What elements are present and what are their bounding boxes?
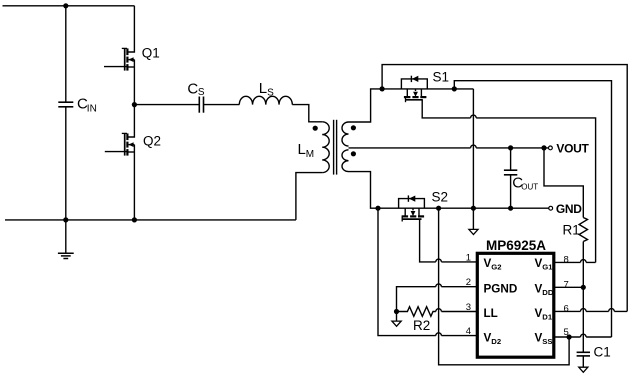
wire pin 2 PGND to ground [397, 284, 478, 312]
svg-text:VOUT: VOUT [556, 142, 589, 156]
wire VOUT to R1 VDD feed [544, 148, 583, 218]
node VOUT junction [541, 145, 546, 150]
svg-text:GND: GND [556, 202, 582, 216]
svg-text:Q2: Q2 [143, 133, 161, 148]
transformer core [334, 120, 337, 175]
node top rail / CIN junction [63, 3, 68, 8]
node S1 source junction [452, 86, 457, 91]
wire top input rail [3, 5, 135, 7]
svg-text:L: L [259, 80, 267, 97]
node primary dot [313, 126, 318, 131]
wire R1 to VDD and C1 [582, 242, 584, 353]
wire S1 drain to top rail to VD1 [382, 65, 627, 312]
node S2 drain junction [375, 206, 380, 211]
node PGND R2 junction [394, 309, 399, 314]
node switch node [132, 102, 137, 107]
svg-text:S1: S1 [433, 70, 450, 85]
node VOUT terminal [549, 146, 553, 150]
node GND terminal [549, 206, 553, 210]
inductor LS [239, 96, 292, 104]
wire S2 main GND rail [378, 207, 549, 209]
resistor R1 [579, 218, 587, 242]
svg-text:1: 1 [466, 252, 471, 263]
svg-text:IN: IN [87, 104, 97, 115]
wire pin 7 VDD [554, 286, 584, 288]
node S1 drain junction [380, 86, 385, 91]
capacitor CIN [58, 6, 73, 220]
node secondary bottom dot [351, 151, 356, 156]
transistor S1 [401, 76, 427, 103]
wire pin 8 VG1 [554, 260, 596, 263]
wire primary return [296, 173, 322, 220]
node pin5 VSS junction [567, 334, 572, 339]
svg-text:8: 8 [564, 254, 569, 265]
capacitor COUT [504, 148, 517, 208]
wire pin 6 VD1 [554, 309, 627, 312]
wire secondary top lead to S1 [349, 89, 383, 122]
ground symbol R2 [392, 312, 401, 327]
svg-text:7: 7 [564, 279, 569, 290]
svg-text:2: 2 [466, 277, 471, 288]
capacitor C1 [577, 352, 590, 367]
transistor S2 [399, 195, 425, 221]
transformer secondary top winding [342, 122, 349, 146]
node GND rail S1 junction [471, 206, 476, 211]
capacitor CS [199, 97, 239, 113]
svg-text:S2: S2 [432, 190, 449, 205]
svg-text:S: S [267, 88, 274, 99]
node S2 source junction [436, 206, 441, 211]
ground earth symbol [58, 220, 74, 259]
wire pin 3 LL [436, 309, 478, 312]
svg-text:6: 6 [564, 303, 569, 314]
transformer secondary bottom winding [342, 150, 349, 172]
svg-text:C: C [187, 81, 198, 98]
wire center tap to VOUT [349, 145, 549, 148]
svg-text:5: 5 [564, 327, 569, 338]
wire pin 5 VSS [554, 334, 612, 337]
wire switch node to CS [134, 104, 199, 106]
wire bottom input rail [5, 219, 296, 221]
ground symbol C1 [579, 367, 588, 372]
svg-text:R2: R2 [413, 318, 430, 333]
svg-text:M: M [306, 149, 314, 160]
node VDD junction [581, 285, 586, 290]
svg-text:L: L [298, 141, 306, 158]
node CIN bottom junction [63, 217, 68, 222]
svg-text:PGND: PGND [484, 282, 518, 295]
resistor R2 [397, 307, 436, 317]
wire S2 drain to VD2 pin 4 [378, 208, 477, 335]
wire S1 source down to GND rail [472, 89, 474, 208]
svg-text:MP6925A: MP6925A [486, 238, 546, 253]
svg-text:OUT: OUT [521, 183, 538, 192]
inductor LM transformer primary [322, 122, 329, 173]
node COUT bottom junction [508, 206, 513, 211]
wire S2 gate to VG2 pin 1 [420, 219, 478, 262]
wire S1 gate to VG1 [422, 100, 595, 263]
svg-text:3: 3 [466, 302, 471, 313]
wire S1 source to VSS rail [454, 81, 611, 337]
ground symbol GND rail [469, 208, 478, 234]
node Q2 source rail junction [132, 217, 137, 222]
wire LS to transformer primary [292, 105, 322, 122]
svg-text:LL: LL [484, 307, 498, 320]
svg-text:R1: R1 [563, 223, 580, 238]
node COUT top junction [508, 145, 513, 150]
transistor Q2 [105, 105, 135, 220]
svg-text:Q1: Q1 [142, 46, 160, 61]
wire S1 main rail [382, 88, 473, 90]
svg-text:C1: C1 [594, 345, 611, 360]
svg-text:4: 4 [466, 326, 471, 337]
op-amp U1 MP6925A IC body [477, 253, 554, 357]
node secondary top dot [351, 125, 356, 130]
wire secondary bottom lead to S2 [349, 172, 379, 209]
wire S2 source to VSS bottom [439, 208, 569, 365]
transistor Q1 [104, 6, 134, 105]
svg-text:S: S [198, 87, 205, 98]
